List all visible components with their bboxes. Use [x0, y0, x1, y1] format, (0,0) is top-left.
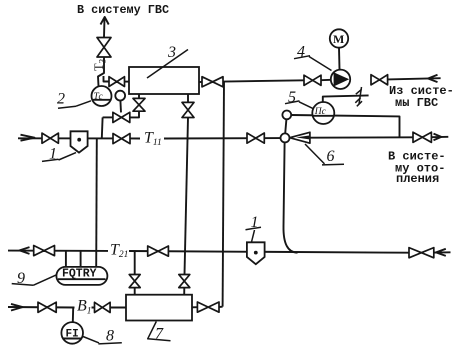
strainer 1 on return (pentagon with dot): [247, 242, 265, 264]
svg-text:6: 6: [327, 148, 335, 165]
label 6 with leader: [305, 144, 344, 165]
wire: HX7 outlet: [192, 306, 197, 308]
flow meter 8 (circle FI): [61, 322, 83, 344]
wire: DHW outlet riser with up arrow: [101, 17, 109, 37]
heat exchanger 3 (rect): [129, 67, 199, 94]
wire: elevator to heating outlet: [310, 136, 413, 138]
svg-text:мы ГВС: мы ГВС: [395, 96, 438, 110]
valve VB2 above HX7 (vertical): [129, 275, 140, 288]
wire: vertical line A: [185, 118, 189, 275]
valve V2 before heat exchanger 3: [109, 77, 125, 87]
valve V13 on return from heating: [409, 248, 434, 258]
label 4 with leader: [294, 44, 332, 71]
valve V14 on cold water inlet: [38, 302, 56, 312]
valve V11 on T21: [34, 246, 55, 256]
wire: valve V2 to HX3: [125, 81, 130, 83]
valve V6 heating supply outlet: [413, 132, 431, 142]
wire: impulse line from pressure sensor: [323, 95, 369, 102]
svg-text:В1: В1: [77, 298, 92, 317]
wire: to heating system with right arrow: [431, 134, 448, 141]
wire: elevator return drop with curve: [283, 142, 297, 252]
wire: junction risers at strainer outlet: [96, 117, 102, 267]
wire: heat meter taps: [66, 251, 81, 267]
svg-text:2: 2: [57, 91, 65, 108]
wire: junction link: [285, 119, 286, 133]
control valve V10 with actuator: [113, 91, 130, 123]
wire: V16 to line B corner: [219, 306, 223, 308]
heat exchanger 7 (rect): [126, 295, 192, 321]
wire: pump to motor: [338, 48, 341, 70]
valve V5 right of pump: [371, 75, 388, 85]
valve VA2 above HX7 (vertical): [179, 275, 190, 288]
svg-text:8: 8: [106, 328, 114, 345]
node: elevator junction circle: [281, 133, 290, 142]
pressure tap symbol: [355, 87, 362, 106]
svg-text:7: 7: [155, 326, 164, 343]
svg-text:В систему ГВС: В систему ГВС: [77, 3, 169, 17]
svg-text:Т3: Т3: [92, 58, 108, 71]
label: from DHW system text: [389, 84, 454, 110]
wire: from DHW system inlet with left arrow: [388, 75, 441, 82]
elevator 6 nozzle: [290, 132, 310, 143]
wire: bend to valve V2: [104, 76, 110, 82]
pump 4 (circle with filled triangle): [331, 70, 350, 89]
wire: elbow to control valve: [130, 111, 139, 117]
valve VB1 under HX3 (vertical): [133, 98, 145, 111]
wire: valve V4 to pump: [321, 79, 331, 81]
node: upper junction circle: [282, 111, 291, 120]
valve V16 at HX7 outlet: [197, 302, 219, 312]
pressure sensor Ps (circle): [312, 102, 334, 124]
wire: HX3 outlet to valve V3: [199, 81, 202, 83]
wire: riser down to sensor bend: [98, 57, 104, 86]
valve V9 on T11 before elevator: [247, 133, 264, 143]
wire: flow meter stub: [72, 308, 74, 323]
svg-text:пления: пления: [396, 172, 439, 186]
wire: HX3 bottom-right stem: [187, 94, 189, 102]
wire: T11 supply line with inlet arrow: [18, 135, 281, 141]
wire: cold water inlet line with right arrow: [8, 304, 126, 311]
valve VA1 under HX3 (vertical): [182, 102, 194, 117]
heat meter 9 (stadium FQTRY): [56, 267, 107, 285]
label 1 with leader (right strainer): [246, 214, 262, 242]
motor M circle: [330, 29, 348, 47]
wire: HX3 bottom-left port stem: [138, 94, 140, 98]
label 3 with leader: [147, 44, 188, 78]
label 1 with leader (left strainer): [42, 146, 76, 163]
wire: pump suction line: [223, 80, 304, 81]
label 8 with leader: [83, 328, 122, 345]
valve V3 at HX3 outlet: [202, 77, 223, 87]
wire: vertical line B (riser from DHW stage2): [223, 82, 224, 307]
valve V8 on T11: [113, 134, 130, 144]
wire: control valve to junction: [103, 116, 113, 118]
wire: regulator line through Ps to heating corner: [291, 115, 400, 137]
temperature sensor 2 (circle Tc): [92, 86, 112, 106]
wire: T21 return line with left arrow: [8, 247, 451, 256]
label 9 with leader: [12, 270, 57, 287]
label 7 with leader: [148, 322, 171, 343]
valve V12 on T21: [148, 246, 169, 256]
label: to heating system text: [388, 149, 446, 186]
label 5 with leader: [285, 89, 314, 109]
valve V4 left of pump: [304, 75, 321, 85]
valve V1 on DHW riser (vertical): [97, 38, 111, 58]
svg-text:3: 3: [167, 44, 176, 61]
valve V15 before HX7: [95, 302, 111, 312]
wire: VB2 to HX7: [134, 288, 136, 295]
strainer 1 on T11 (pentagon with dot): [71, 131, 88, 152]
label 2 with leader: [57, 91, 91, 109]
wire: VA2 to HX7: [183, 288, 185, 295]
svg-text:Т11: Т11: [144, 130, 162, 149]
valve V7 on T11 inlet: [42, 133, 58, 143]
wire: T21 branch to VB2: [134, 251, 136, 274]
svg-text:М: М: [333, 32, 344, 46]
svg-text:Т21: Т21: [110, 242, 128, 261]
